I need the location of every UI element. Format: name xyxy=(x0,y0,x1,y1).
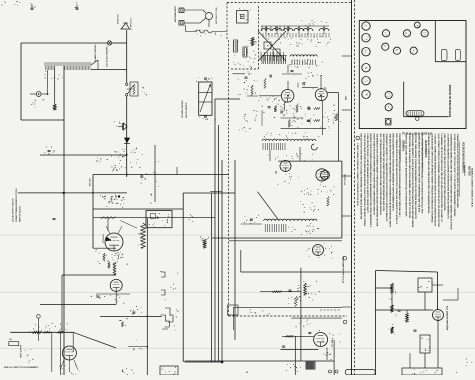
svg-text:BOTTOM VIEW OF CHASSIS: BOTTOM VIEW OF CHASSIS xyxy=(449,84,452,117)
svg-text:3 ANTENNA DISCONNECTED AND NO: 3 ANTENNA DISCONNECTED AND NO SIGNAL POS… xyxy=(450,134,453,231)
svg-text:R36 100K: R36 100K xyxy=(90,178,92,186)
svg-text:6AQ5 AW OUTPUT VT9: 6AQ5 AW OUTPUT VT9 xyxy=(446,305,449,330)
svg-text:VERTICAL SIZE AND LINEARITY AD: VERTICAL SIZE AND LINEARITY ADJUSTED FOR… xyxy=(405,134,408,217)
svg-text:EIGHT TUBES PLUS RECTIFIER AND: EIGHT TUBES PLUS RECTIFIER AND PICTURE T… xyxy=(372,134,375,215)
svg-text:RESISTORS INDICATED IN OHMS K: RESISTORS INDICATED IN OHMS K EQUALS 100… xyxy=(421,134,424,214)
svg-text:DEFLECTION YOKE PART NO 76-133: DEFLECTION YOKE PART NO 76-13388-3 MOUNT… xyxy=(360,134,363,220)
svg-text:AC INPUT 117V: AC INPUT 117V xyxy=(130,17,133,30)
svg-text:7 SOCKET CONNECTIONS SHOWN AS: 7 SOCKET CONNECTIONS SHOWN AS BOTTOM VIE… xyxy=(434,134,437,227)
svg-text:C NEW TUNING CORES ALL TUNER: C NEW TUNING CORES ALL TUNER 177-84 PROD… xyxy=(356,143,359,206)
svg-text:FUSE PROTECTED BY CIRCUIT BREA: FUSE PROTECTED BY CIRCUIT BREAKER IN B P… xyxy=(366,134,369,214)
svg-text:FILAMENT WINDING: FILAMENT WINDING xyxy=(94,44,97,62)
svg-text:PHILCO CORP TV-123 SCHEMATIC: PHILCO CORP TV-123 SCHEMATIC xyxy=(4,366,39,369)
svg-text:GENERAL: GENERAL xyxy=(401,140,404,152)
svg-text:PICTURE TUBE ANODE VOLTAGE MEA: PICTURE TUBE ANODE VOLTAGE MEASURED WITH… xyxy=(414,134,417,220)
svg-text:ADJUSTMENTS: ADJUSTMENTS xyxy=(424,140,427,158)
svg-text:6.3V TO ALL HEATERS: 6.3V TO ALL HEATERS xyxy=(106,46,109,67)
svg-text:WIDTH AND LINEARITY SLEEVE ADJ: WIDTH AND LINEARITY SLEEVE ADJUSTED FOR … xyxy=(411,134,414,228)
svg-text:MAY CHANGE SPECIFICATIONS WITH: MAY CHANGE SPECIFICATIONS WITHOUT NOTICE… xyxy=(395,134,398,225)
svg-text:PRODUCTION CHANGES REQUIRED IN: PRODUCTION CHANGES REQUIRED IN DESIGN AN… xyxy=(398,134,401,217)
svg-text:115V AC SUPPLY CIRCUIT: 115V AC SUPPLY CIRCUIT xyxy=(12,198,15,222)
svg-text:HEATER CIRCUIT WIRED IN SERIES: HEATER CIRCUIT WIRED IN SERIES PARALLEL … xyxy=(369,134,372,228)
svg-text:VOLUME CONTROL: VOLUME CONTROL xyxy=(182,99,184,118)
svg-text:ON-OFF SWITCH: ON-OFF SWITCH xyxy=(186,102,188,118)
svg-text:MODELS UG4242M UG4243M CH 10L4: MODELS UG4242M UG4243M CH 10L41 xyxy=(471,168,474,208)
svg-text:VT7 1/2-6U8 AF AMPLIFIER: VT7 1/2-6U8 AF AMPLIFIER xyxy=(342,256,345,283)
svg-text:VT10 5U4: VT10 5U4 xyxy=(102,234,105,243)
svg-text:VERT OUTPUT: VERT OUTPUT xyxy=(21,344,23,358)
svg-text:CAPACITANCE VALUES LESS THAN O: CAPACITANCE VALUES LESS THAN ONE IN MF O… xyxy=(417,134,420,213)
svg-text:2 LINE VOLTAGE 117 VOLTS AC S: 2 LINE VOLTAGE 117 VOLTS AC SIXTY CYCLE … xyxy=(453,134,456,217)
svg-text:INTERLOCK: INTERLOCK xyxy=(118,13,120,24)
svg-text:REPLACEMENT PARTS SHOULD BE OR: REPLACEMENT PARTS SHOULD BE ORDERED BY P… xyxy=(392,134,395,212)
svg-text:CHECK ION TRAP POSITION BEFORE: CHECK ION TRAP POSITION BEFORE ADJUSTING… xyxy=(363,134,366,227)
svg-text:LINE VOLT MADE AT THE SET OF P: LINE VOLT MADE AT THE SET OF POINT HEIGH… xyxy=(443,134,446,212)
svg-text:6BZ7: 6BZ7 xyxy=(346,96,348,100)
svg-text:S1: S1 xyxy=(130,89,132,91)
svg-text:SCHEMATIC SUBJECT TO CHANGE WI: SCHEMATIC SUBJECT TO CHANGE WITHOUT NOTI… xyxy=(385,134,388,223)
svg-text:ALL VOLTAGES MEASURED WITH VAC: ALL VOLTAGES MEASURED WITH VACUUM TUBE V… xyxy=(379,134,382,216)
svg-text:VOLTAGE MEASUREMENTS: VOLTAGE MEASUREMENTS xyxy=(461,142,464,173)
svg-text:MATCHING 300 OHM: MATCHING 300 OHM xyxy=(215,7,218,24)
svg-text:8 SPEAKER CONNECTED AND ION T: 8 SPEAKER CONNECTED AND ION TRAP ADJUSTE… xyxy=(427,134,430,214)
svg-text:POWER TRANSFORMER 60 CYCLE: POWER TRANSFORMER 60 CYCLE xyxy=(15,188,18,222)
svg-text:4 CONTRAST MAXIMUM CLOCKWISE: 4 CONTRAST MAXIMUM CLOCKWISE POSITION NO… xyxy=(446,134,449,219)
svg-text:TOLERANCE PLUS OR MINUS TWENTY: TOLERANCE PLUS OR MINUS TWENTY PERCENT U… xyxy=(376,134,379,227)
svg-text:VT7 6T8: VT7 6T8 xyxy=(332,340,334,347)
svg-text:6 ALL OTHER CONTROLS IN NORMA: 6 ALL OTHER CONTROLS IN NORMAL OPERATING… xyxy=(437,134,440,228)
svg-text:ANTENNA INPUT: ANTENNA INPUT xyxy=(174,5,177,22)
svg-text:VOLTAGES MAY VARY PLUS OR MINU: VOLTAGES MAY VARY PLUS OR MINUS TWENTY P… xyxy=(430,134,433,224)
svg-text:1 MADE WITH A VTVM FROM POINT: 1 MADE WITH A VTVM FROM POINT INDICATED … xyxy=(456,134,459,209)
svg-text:PART NO 32-8273: PART NO 32-8273 xyxy=(19,206,22,222)
svg-text:S2: S2 xyxy=(246,372,248,374)
svg-text:5 CHANNEL SELECTOR SWITCH AT: 5 CHANNEL SELECTOR SWITCH AT THE SET AT … xyxy=(440,134,443,223)
svg-text:AND DESCRIPTION FROM THE NEARE: AND DESCRIPTION FROM THE NEAREST PHILCO … xyxy=(388,134,391,228)
svg-text:SERVICE BULLETINS FOR LATER PR: SERVICE BULLETINS FOR LATER PRODUCTION I… xyxy=(382,134,385,212)
svg-text:HORIZONTAL HOLD RANGE CHECK WI: HORIZONTAL HOLD RANGE CHECK WITH CHANNEL… xyxy=(408,134,411,219)
